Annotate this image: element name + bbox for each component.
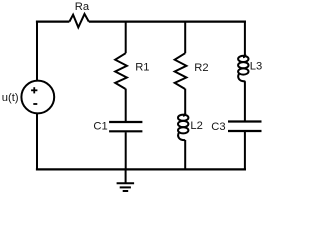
wire top-left segment	[36, 21, 70, 23]
wire bottom rail	[36, 168, 246, 170]
inductor L3	[238, 55, 248, 82]
wire L3 branch top	[244, 21, 246, 56]
wire R2 to L2	[184, 89, 186, 115]
wire C3 to bottom rail	[244, 132, 246, 171]
wire L3 to C3	[244, 81, 246, 121]
svg-text:L3: L3	[250, 61, 262, 73]
wire R1 to C1	[125, 89, 127, 122]
wire ground stem	[125, 169, 127, 183]
svg-text:C3: C3	[211, 121, 225, 133]
inductor L2	[178, 113, 188, 140]
wire R2 branch top	[184, 21, 186, 54]
capacitor C3	[228, 122, 262, 132]
voltage source u(t)	[21, 81, 54, 114]
wire R1 branch top	[125, 21, 127, 54]
capacitor C1	[109, 122, 142, 131]
svg-text:u(t): u(t)	[2, 92, 19, 104]
wire left rail above source	[36, 21, 38, 82]
wire top segment Ra to right corner	[89, 21, 246, 23]
resistor R2	[175, 53, 187, 89]
resistor Ra	[69, 14, 88, 28]
polarity minus sign of source	[33, 103, 37, 105]
svg-text:Ra: Ra	[75, 1, 90, 13]
polarity plus sign of source	[31, 87, 37, 93]
wire C1 to bottom rail	[125, 132, 127, 169]
ground	[117, 183, 135, 191]
svg-text:L2: L2	[190, 120, 202, 132]
svg-text:C1: C1	[93, 120, 107, 132]
svg-text:R1: R1	[135, 62, 149, 74]
resistor R1	[115, 53, 127, 89]
wire left rail below source	[36, 114, 38, 171]
wire L2 to bottom rail	[184, 140, 186, 169]
svg-text:R2: R2	[194, 62, 208, 74]
